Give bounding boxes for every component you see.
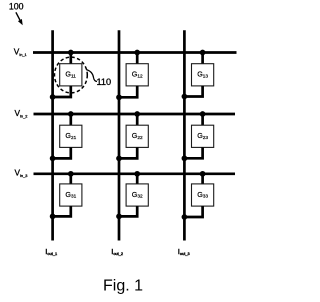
- cell G32: junction dot on column 2: [116, 214, 122, 220]
- wire row 1 (V_in_1 word line): [33, 51, 237, 54]
- conductance element G23: [192, 125, 214, 147]
- caption Fig. 1: [103, 278, 143, 295]
- cell G23: junction dot on column 3: [182, 155, 188, 161]
- svg-text:Vin_2: Vin_2: [15, 108, 28, 118]
- cell G21: junction dot on column 1: [50, 156, 56, 162]
- dashed highlight circle around G11 (element 110): [55, 57, 88, 93]
- cell G32: bottom wire to column 2: [119, 206, 137, 216]
- cell G33: stub wire to box: [201, 174, 204, 184]
- svg-text:Vin_1: Vin_1: [14, 47, 27, 57]
- conductance element G12: [126, 64, 148, 86]
- cell G32: stub wire to box: [136, 174, 139, 184]
- wire row 3 (V_in_3 word line): [34, 172, 236, 175]
- label V_in_2: [15, 108, 28, 118]
- cell G22: stub wire to box: [136, 114, 139, 125]
- conductance element G22: [126, 125, 148, 147]
- wire column 1 (I_out_1 bit line): [51, 30, 54, 240]
- cell G12: junction dot on row 1: [134, 50, 140, 56]
- conductance element G31: [60, 184, 82, 206]
- cell G11: junction dot on row 1: [68, 50, 74, 56]
- conductance element G21: [60, 125, 82, 147]
- cell G22: bottom wire to column 2: [119, 147, 137, 158]
- cell G12: junction dot on column 2: [116, 94, 122, 100]
- conductance element G11: [60, 64, 82, 86]
- cell G12: bottom wire to column 2: [119, 86, 137, 97]
- cell G21: stub wire to box: [69, 114, 72, 125]
- cell G33: junction dot on row 3: [200, 171, 206, 177]
- cell G31: bottom wire to column 1: [53, 206, 71, 216]
- cell G21: junction dot on row 2: [68, 111, 74, 117]
- arrow leader from label 100: [16, 12, 23, 25]
- label V_in_3: [15, 168, 28, 178]
- cell G11: stub wire to box: [69, 53, 72, 64]
- svg-text:Iout_1: Iout_1: [45, 247, 57, 256]
- label 110: [97, 77, 112, 87]
- conductance element G13: [192, 64, 214, 86]
- cell G33: junction dot on column 3: [182, 214, 188, 220]
- cell G31: stub wire to box: [69, 174, 72, 184]
- cell G31: junction dot on column 1: [50, 214, 56, 220]
- conductance element G32: [126, 184, 148, 206]
- cell G31: junction dot on row 3: [68, 171, 74, 177]
- svg-text:110: 110: [97, 77, 112, 87]
- cell G12: stub wire to box: [136, 53, 139, 64]
- wire column 3 (I_out_3 bit line): [183, 30, 186, 240]
- cell G13: junction dot on row 1: [200, 50, 206, 56]
- svg-text:Fig. 1: Fig. 1: [103, 278, 143, 295]
- cell G33: bottom wire to column 3: [184, 206, 202, 217]
- svg-text:100: 100: [9, 1, 24, 11]
- wire row 2 (V_in_2 word line): [34, 113, 236, 116]
- cell G22: junction dot on row 2: [134, 111, 140, 117]
- label I_out_2: [111, 247, 123, 256]
- cell G13: stub wire to box: [201, 53, 204, 64]
- cell G11: bottom wire to column 1: [53, 86, 71, 97]
- label I_out_3: [178, 247, 190, 256]
- cell G21: bottom wire to column 1: [53, 147, 71, 158]
- figure reference label 100: [9, 1, 24, 11]
- cell G23: junction dot on row 2: [200, 111, 206, 117]
- wire column 2 (I_out_2 bit line): [118, 30, 121, 240]
- svg-text:Vin_3: Vin_3: [15, 168, 28, 178]
- cell G13: bottom wire to column 3: [184, 86, 202, 97]
- svg-text:Iout_3: Iout_3: [178, 247, 190, 256]
- label V_in_1: [14, 47, 27, 57]
- leader curve to label 110: [86, 70, 97, 82]
- cell G13: junction dot on column 3: [182, 94, 188, 100]
- cell G22: junction dot on column 2: [116, 156, 122, 162]
- cell G23: stub wire to box: [201, 114, 204, 125]
- cell G11: junction dot on column 1: [50, 94, 56, 100]
- svg-text:Iout_2: Iout_2: [111, 247, 123, 256]
- cell G23: bottom wire to column 3: [184, 147, 202, 158]
- conductance element G33: [192, 184, 214, 206]
- cell G32: junction dot on row 3: [134, 171, 140, 177]
- label I_out_1: [45, 247, 57, 256]
